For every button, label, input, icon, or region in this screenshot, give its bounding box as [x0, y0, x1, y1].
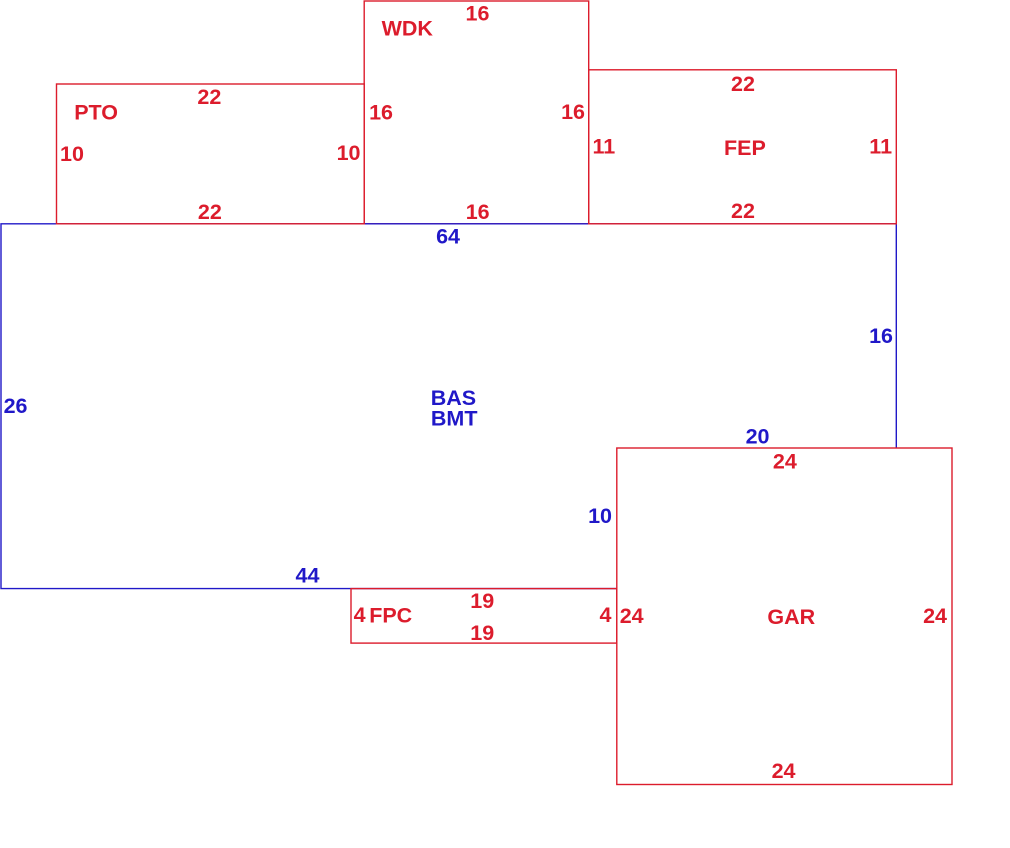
svg-text:22: 22 [198, 200, 222, 224]
area FPC outline [351, 589, 617, 644]
svg-text:10: 10 [588, 504, 612, 528]
svg-text:22: 22 [197, 85, 221, 109]
svg-text:20: 20 [746, 424, 770, 448]
svg-text:WDK: WDK [382, 17, 434, 41]
svg-text:24: 24 [773, 450, 797, 474]
svg-text:16: 16 [561, 100, 585, 124]
area FEP outline [589, 70, 897, 224]
svg-text:4: 4 [354, 603, 366, 627]
svg-text:BMT: BMT [431, 407, 478, 431]
svg-text:64: 64 [436, 225, 460, 249]
svg-text:19: 19 [470, 621, 494, 645]
area PTO outline [57, 84, 365, 224]
svg-text:16: 16 [369, 100, 393, 124]
svg-text:19: 19 [470, 589, 494, 613]
svg-text:16: 16 [869, 324, 893, 348]
svg-text:22: 22 [731, 199, 755, 223]
svg-text:24: 24 [620, 604, 644, 628]
svg-text:24: 24 [923, 604, 947, 628]
area GAR outline [617, 448, 952, 785]
svg-text:11: 11 [593, 134, 616, 158]
svg-text:24: 24 [772, 759, 796, 783]
svg-text:FEP: FEP [724, 136, 766, 160]
svg-text:PTO: PTO [74, 101, 118, 125]
svg-text:10: 10 [337, 141, 361, 165]
svg-text:10: 10 [60, 142, 84, 166]
area BAS/BMT outline (blue) [1, 224, 896, 589]
svg-text:16: 16 [466, 200, 490, 224]
svg-text:26: 26 [4, 394, 28, 418]
svg-text:FPC: FPC [369, 603, 412, 627]
svg-text:44: 44 [296, 564, 320, 588]
svg-text:11: 11 [869, 134, 892, 158]
svg-text:22: 22 [731, 72, 755, 96]
svg-text:4: 4 [600, 603, 612, 627]
area WDK outline [364, 1, 589, 224]
svg-text:16: 16 [466, 1, 490, 25]
svg-text:GAR: GAR [767, 605, 815, 629]
